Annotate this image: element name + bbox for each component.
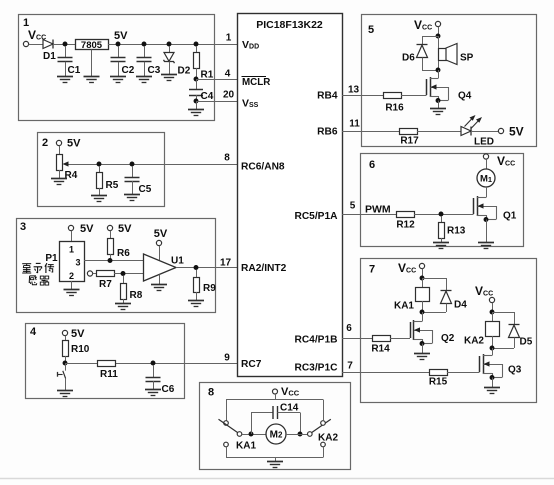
svg-text:5V: 5V — [509, 125, 524, 139]
junction R5 — [97, 162, 102, 167]
wire R17 to LED — [417, 131, 461, 133]
zener diode D2 — [169, 46, 171, 53]
wire 5V to U1 — [159, 246, 161, 260]
capacitor C4 — [196, 79, 198, 89]
block 4 box — [26, 324, 185, 399]
wire pin 17 net — [176, 267, 237, 269]
wire Vcc to motor — [486, 159, 488, 169]
svg-text:5V: 5V — [154, 228, 168, 240]
capacitor C6 — [153, 365, 155, 377]
ground R8 — [115, 303, 131, 305]
resistor R5 — [99, 166, 101, 172]
svg-text:KA2: KA2 — [464, 336, 484, 347]
wire motor to Q1 drain — [486, 187, 488, 198]
wire left drop — [226, 400, 228, 421]
svg-text:RB6: RB6 — [317, 127, 338, 138]
wire pin 4 — [196, 79, 237, 81]
svg-text:1: 1 — [226, 33, 232, 44]
ground C4 — [196, 101, 198, 109]
svg-text:RC3/P1C: RC3/P1C — [294, 363, 338, 374]
svg-text:6: 6 — [369, 159, 375, 171]
resistor R14 — [373, 336, 391, 342]
svg-text:SP: SP — [460, 53, 474, 64]
svg-text:C2: C2 — [122, 65, 135, 76]
ground D2 — [161, 74, 177, 76]
ground C2 — [110, 76, 126, 78]
resistor R16 — [384, 93, 402, 99]
svg-text:RA2/INT2: RA2/INT2 — [241, 263, 287, 274]
wire Vcc to top rail — [275, 394, 277, 400]
potentiometer wiper arrow — [63, 161, 69, 166]
wire pin 9 net — [65, 363, 237, 365]
resistor R11 — [98, 361, 116, 367]
terminal 5V block2 — [56, 140, 61, 145]
resistor R15 — [430, 370, 448, 376]
ground C1 — [57, 76, 73, 78]
scan artifact line bottom edge — [0, 478, 554, 480]
svg-text:5V: 5V — [114, 30, 128, 42]
svg-text:D5: D5 — [520, 337, 533, 348]
terminal Vcc KA2 — [489, 297, 494, 302]
block 5 box — [362, 15, 537, 147]
relay coil KA1 — [422, 278, 424, 287]
svg-text:R16: R16 — [385, 103, 404, 114]
svg-text:C6: C6 — [162, 384, 175, 395]
svg-text:11: 11 — [349, 119, 360, 130]
ground 7805 — [91, 50, 93, 77]
svg-text:RC6/AN8: RC6/AN8 — [241, 162, 285, 173]
wire KA1 common to motor — [242, 434, 266, 436]
ground Q1 — [486, 220, 488, 243]
wire pin 6 to R14 — [342, 338, 372, 340]
svg-text:RB4: RB4 — [317, 91, 338, 102]
svg-text:R11: R11 — [100, 369, 118, 380]
svg-text:2: 2 — [69, 271, 74, 281]
svg-text:D1: D1 — [43, 51, 56, 62]
terminal Vcc block5 — [435, 21, 440, 26]
svg-text:Q2: Q2 — [441, 333, 455, 344]
wire LED to 5V — [471, 131, 498, 133]
svg-text:U1: U1 — [171, 256, 184, 267]
resistor R8 — [123, 276, 125, 284]
capacitor C14 — [251, 413, 253, 435]
svg-text:PIC18F13K22: PIC18F13K22 — [256, 19, 323, 31]
svg-text:7: 7 — [369, 264, 375, 276]
junction KA1 top — [420, 276, 425, 281]
hall sensor P1 — [60, 242, 85, 282]
junction KA1 bottom — [420, 310, 425, 315]
junction R6 output — [108, 258, 113, 263]
svg-text:R17: R17 — [400, 136, 419, 147]
wire pin 20 — [196, 101, 237, 103]
resistor R13 — [441, 216, 443, 222]
ground block8 — [275, 458, 277, 462]
diode D1 — [43, 40, 53, 49]
svg-text:RC7: RC7 — [241, 359, 262, 370]
svg-text:PWM: PWM — [365, 204, 391, 216]
ground R13 — [433, 242, 449, 244]
svg-text:8: 8 — [224, 153, 230, 164]
wire bottom rail — [226, 457, 323, 459]
resistor R12 — [397, 212, 415, 218]
svg-text:M1: M1 — [480, 174, 492, 185]
wire D1 to 7805 — [53, 44, 75, 46]
svg-text:R12: R12 — [396, 220, 415, 231]
wire D6 branch bottom — [422, 58, 424, 71]
LED arrow 2 — [471, 119, 480, 129]
terminal Vcc block6 — [483, 154, 488, 159]
svg-text:Q3: Q3 — [508, 365, 522, 376]
label hall sensor chinese line1 — [22, 263, 31, 265]
wire 7805 to R1 node — [108, 44, 237, 46]
svg-text:4: 4 — [225, 69, 231, 80]
svg-text:2: 2 — [42, 137, 48, 149]
op-amp U1 — [144, 254, 177, 281]
junction R13 — [439, 212, 444, 217]
junction KA2 top — [490, 310, 495, 315]
ground R4 — [51, 178, 67, 180]
wire R14 to gate — [390, 338, 410, 340]
ground R5 — [91, 195, 107, 197]
ground C5 — [124, 194, 140, 196]
capacitor C5 — [132, 166, 134, 177]
svg-text:Q4: Q4 — [458, 91, 472, 102]
svg-text:5V: 5V — [118, 223, 132, 235]
svg-text:RC5/P1A: RC5/P1A — [294, 211, 338, 222]
svg-text:6: 6 — [346, 323, 352, 334]
transistor Q3 — [492, 348, 494, 356]
junction drain node — [436, 68, 441, 73]
svg-text:3: 3 — [20, 221, 26, 233]
junction R1 — [194, 42, 199, 47]
junction switch node — [63, 361, 68, 366]
wire pin 5 PWM — [342, 214, 396, 216]
switch KA2 contact — [308, 432, 313, 437]
block 3 box — [17, 219, 216, 313]
svg-text:17: 17 — [220, 258, 232, 269]
wire top rail — [226, 399, 323, 401]
junction Vcc node — [436, 34, 441, 39]
junction C5 — [130, 162, 135, 167]
transistor Q1 — [473, 198, 475, 214]
svg-text:D6: D6 — [402, 53, 415, 64]
svg-text:KA1: KA1 — [394, 301, 414, 312]
svg-text:7805: 7805 — [81, 40, 103, 51]
svg-text:5: 5 — [350, 201, 356, 212]
svg-text:13: 13 — [348, 85, 360, 96]
junction C1 — [63, 42, 68, 47]
svg-text:D2: D2 — [178, 66, 191, 77]
ground Q2 — [422, 344, 424, 354]
resistor R7 — [93, 273, 96, 275]
svg-text:R7: R7 — [99, 279, 112, 290]
svg-text:R9: R9 — [203, 283, 216, 294]
relay coil KA2 — [492, 312, 494, 321]
resistor R1 — [196, 46, 198, 52]
speaker SP — [439, 49, 447, 61]
label hall sensor chinese line2 — [29, 276, 36, 283]
wire motor to KA2 common — [286, 434, 308, 436]
block 1 box — [19, 15, 215, 121]
svg-text:C1: C1 — [68, 65, 81, 76]
diode LED — [461, 127, 471, 136]
svg-text:D4: D4 — [454, 300, 467, 311]
wire R7 to comparator — [114, 273, 144, 275]
svg-text:20: 20 — [223, 90, 235, 101]
terminal 5V R6 — [107, 225, 112, 230]
terminal 5V U1 — [156, 240, 161, 245]
wire pin 8 net — [99, 164, 237, 166]
svg-text:R13: R13 — [447, 226, 466, 237]
svg-text:8: 8 — [208, 387, 214, 399]
svg-text:RC4/P1B: RC4/P1B — [294, 335, 337, 346]
block 7 box — [361, 259, 537, 403]
resistor R10 — [65, 336, 67, 340]
terminal R7 input — [87, 271, 92, 276]
svg-text:R5: R5 — [106, 180, 119, 191]
junction R8 — [121, 271, 126, 276]
svg-text:4: 4 — [30, 326, 37, 338]
svg-text:C4: C4 — [201, 91, 214, 102]
motor M1 — [477, 169, 495, 187]
wire left bottom drop — [226, 447, 228, 458]
svg-text:3: 3 — [75, 258, 80, 268]
junction node VSS — [194, 99, 199, 104]
wire R15 to gate — [447, 372, 480, 374]
wire D6 branch top — [422, 36, 438, 38]
resistor R17 — [400, 129, 418, 135]
ground P1 — [71, 281, 73, 289]
terminal 5V LED — [498, 128, 503, 133]
ground C3 — [136, 76, 152, 78]
svg-text:9: 9 — [224, 353, 230, 364]
junction KA2 bottom — [490, 346, 495, 351]
block 8 box — [200, 383, 351, 470]
ground U1 — [159, 275, 161, 285]
block 6 box — [361, 154, 524, 247]
svg-text:KA1: KA1 — [236, 441, 256, 452]
switch KA1 contact — [224, 421, 229, 426]
potentiometer R4 — [59, 146, 61, 154]
svg-text:7: 7 — [347, 361, 353, 372]
svg-text:C14: C14 — [280, 403, 299, 414]
junction node MCLR — [194, 77, 199, 82]
junction C14 left — [249, 432, 254, 437]
svg-text:M2: M2 — [270, 430, 283, 441]
terminal Vcc input — [23, 41, 28, 46]
svg-text:1: 1 — [69, 245, 74, 255]
wire Vcc KA1 down — [422, 269, 424, 278]
svg-text:5V: 5V — [71, 328, 85, 340]
svg-text:R14: R14 — [371, 344, 390, 355]
svg-text:R1: R1 — [201, 70, 214, 81]
wire pin 7 to R15 — [342, 372, 429, 374]
svg-text:C3: C3 — [148, 65, 161, 76]
svg-text:LED: LED — [474, 137, 494, 148]
transistor Q2 — [422, 312, 424, 322]
junction C2 — [116, 42, 121, 47]
terminal Vcc KA1 — [419, 263, 424, 268]
svg-text:5: 5 — [368, 24, 374, 36]
ground switch — [57, 390, 73, 392]
junction R9 — [194, 265, 199, 270]
terminal 5V P1 — [68, 225, 73, 230]
wire R12 to gate — [414, 214, 474, 216]
capacitor C1 — [65, 46, 67, 58]
diode D6 — [417, 44, 428, 46]
transistor Q4 — [438, 70, 440, 79]
svg-text:P1: P1 — [45, 253, 58, 264]
pushbutton switch S1 — [65, 363, 67, 371]
terminal 5V block4 — [62, 330, 67, 335]
diode D5 — [492, 312, 514, 314]
junction D2 — [167, 42, 172, 47]
junction C14 right — [298, 432, 303, 437]
wire pin 11 to R17 — [342, 131, 399, 133]
regulator U 7805 — [76, 40, 109, 50]
svg-text:R15: R15 — [429, 377, 448, 388]
svg-text:R4: R4 — [65, 170, 78, 181]
wire 5V to P1 — [71, 231, 73, 241]
svg-text:R6: R6 — [117, 248, 130, 259]
block 2 box — [38, 133, 165, 207]
svg-text:5V: 5V — [80, 223, 94, 235]
motor M2 — [266, 424, 286, 444]
wire speaker drop — [438, 36, 440, 70]
resistor R9 — [196, 270, 198, 277]
junction C3 — [142, 42, 147, 47]
svg-text:5V: 5V — [67, 138, 81, 150]
diode D4 — [422, 278, 446, 280]
wire right bottom drop — [323, 447, 325, 458]
ground R9 — [188, 300, 204, 302]
terminal Vcc block8 — [273, 389, 278, 394]
junction C6 — [151, 361, 156, 366]
ground C6 — [145, 389, 161, 391]
capacitor C2 — [118, 46, 120, 58]
wire pin 13 to R16 — [342, 95, 383, 97]
wire Vcc to D1 — [29, 44, 43, 46]
wire P1 pin3 to comparator — [84, 260, 144, 262]
resistor R6 — [110, 231, 112, 238]
wire R16 to gate — [401, 95, 427, 97]
ground Q3 — [492, 378, 494, 388]
svg-text:KA2: KA2 — [318, 433, 338, 444]
svg-text:VCC: VCC — [281, 386, 300, 398]
svg-text:Q1: Q1 — [503, 211, 517, 222]
svg-text:MCLR: MCLR — [242, 77, 270, 88]
svg-text:R10: R10 — [71, 344, 90, 355]
svg-text:R8: R8 — [130, 290, 143, 301]
microcontroller U PIC18F13K22 — [238, 14, 343, 377]
wire Vcc down — [438, 27, 440, 36]
svg-text:C5: C5 — [139, 184, 152, 195]
wire right drop — [323, 400, 325, 421]
wire Vcc KA2 down — [492, 303, 494, 312]
LED arrow 1 — [465, 117, 474, 127]
ground Q4 — [438, 101, 440, 109]
capacitor C3 — [144, 46, 146, 58]
